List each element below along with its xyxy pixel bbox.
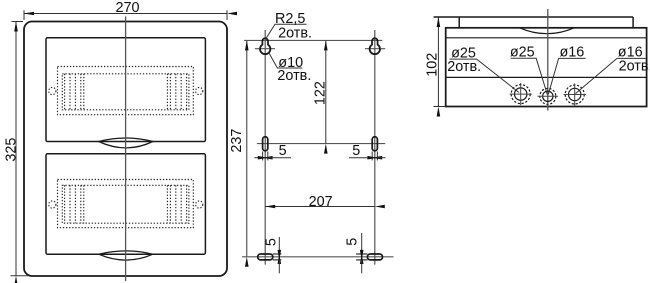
svg-text:2отв.: 2отв.	[278, 25, 312, 41]
bottom slot left	[258, 254, 282, 260]
window 2 handle lens	[99, 251, 153, 260]
bottom slot right	[356, 254, 382, 260]
front view centerline	[125, 17, 127, 282]
keyhole center ticks	[255, 48, 385, 50]
svg-text:2отв.: 2отв.	[447, 59, 481, 75]
window 1 handle lens	[99, 138, 153, 148]
svg-text:5: 5	[264, 238, 280, 246]
dimension 237	[246, 40, 248, 256]
top view centerline	[547, 9, 549, 111]
keyhole slot right	[370, 38, 380, 54]
svg-text:237: 237	[229, 129, 245, 153]
middle slot right	[372, 137, 377, 151]
window 2 dashed screw circles	[49, 201, 203, 208]
svg-text:ø25: ø25	[510, 45, 535, 61]
keyhole slot left	[260, 38, 270, 54]
dimension 270	[24, 10, 227, 20]
window 2 dashed DIN area	[58, 180, 194, 228]
top view inner line 2	[446, 76, 647, 78]
window 1 frame	[46, 38, 205, 142]
middle horizontal line	[257, 143, 385, 145]
dimension 122	[325, 40, 327, 143]
svg-text:5: 5	[279, 143, 287, 159]
svg-text:270: 270	[115, 0, 139, 16]
svg-text:122: 122	[313, 81, 329, 105]
dimension 5 middle-left slot	[254, 152, 291, 161]
top view inner line 1	[446, 37, 647, 39]
svg-text:ø16: ø16	[560, 45, 585, 61]
svg-text:207: 207	[309, 194, 333, 210]
top view bottom extension	[434, 106, 446, 108]
label ø16 middle	[548, 58, 585, 94]
svg-text:2отв.: 2отв.	[619, 58, 650, 74]
mounting pattern top line	[244, 39, 382, 41]
mounting pattern vertical centerline right	[374, 30, 376, 265]
svg-text:102: 102	[425, 53, 441, 77]
dimension 5 bottom-right slot	[361, 233, 363, 273]
knockout right	[564, 83, 586, 105]
svg-text:325: 325	[3, 138, 19, 162]
knockout left	[510, 83, 532, 105]
window 1 dashed screw circles	[49, 87, 203, 94]
knockout middle	[538, 88, 559, 104]
top view body outline	[446, 28, 647, 107]
leader R2,5	[266, 24, 307, 38]
label ø25 2отв. left	[450, 59, 520, 92]
dimension 102	[437, 17, 439, 107]
dimension 5 middle-right slot	[349, 152, 386, 161]
front view outer box	[24, 22, 227, 277]
leader ø10	[269, 53, 303, 69]
dimension 207	[265, 206, 375, 208]
window 2 frame	[46, 154, 205, 254]
dimension 5 bottom-left slot	[278, 237, 280, 273]
label ø16 2отв. right	[576, 58, 646, 93]
top view door top edge	[434, 16, 633, 18]
top view handle arc	[520, 28, 575, 34]
top view door sides	[459, 17, 633, 28]
bottom slots centerline	[242, 256, 394, 258]
svg-text:5: 5	[352, 143, 360, 159]
window 1 dashed DIN area outer	[58, 67, 194, 115]
mounting pattern vertical centerline left	[264, 30, 266, 265]
label ø25 middle	[511, 58, 548, 94]
middle slot left	[263, 137, 268, 151]
svg-text:2отв.: 2отв.	[277, 68, 311, 84]
svg-text:5: 5	[345, 238, 361, 246]
dimension 325	[11, 22, 29, 276]
